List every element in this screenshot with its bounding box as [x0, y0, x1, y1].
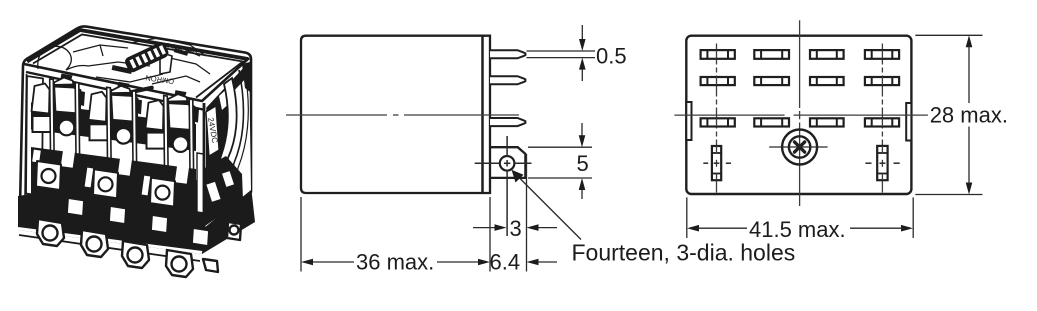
- svg-text:Fourteen, 3-dia. holes: Fourteen, 3-dia. holes: [572, 239, 796, 265]
- svg-text:0.5: 0.5: [596, 44, 627, 69]
- svg-text:6.4: 6.4: [490, 250, 521, 275]
- svg-text:5: 5: [577, 151, 589, 176]
- svg-text:41.5 max.: 41.5 max.: [749, 217, 846, 242]
- svg-text:36 max.: 36 max.: [356, 250, 434, 275]
- svg-text:28 max.: 28 max.: [930, 103, 1008, 128]
- svg-text:3: 3: [510, 216, 522, 241]
